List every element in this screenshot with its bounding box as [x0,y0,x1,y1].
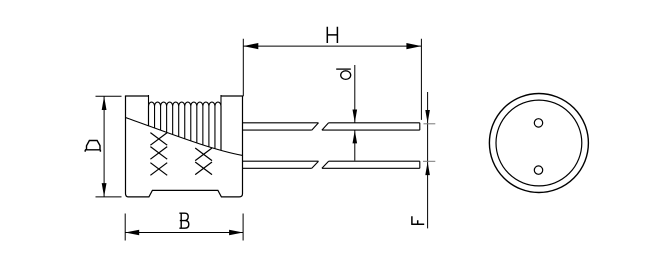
label F [411,216,424,224]
dimension D witness ticks [96,96,122,197]
label B [179,213,188,228]
lower lead wire with break symbol [243,161,420,168]
dimension B line [125,232,243,234]
dimension d line lower part [354,130,356,160]
dimension F tick lower [423,160,435,162]
dimension F arrow down [425,110,430,123]
dimension d line upper part [354,65,356,123]
left flange top edge [125,95,149,97]
wire cross-section X marks, left column [150,133,167,176]
dimension H line [243,45,421,47]
dimension B extension lines [125,214,243,241]
dimension H arrow right [406,43,421,49]
dimension d arrow down [353,110,358,123]
upper lead hole [534,119,542,127]
dimension B arrow left [125,230,139,235]
inductor body outline (side view) [125,96,243,197]
dimension D arrow up [102,96,107,110]
dimension D line [103,96,105,197]
dimension H arrow left [243,43,258,49]
dimension D arrow down [102,183,107,197]
right flange top edge [221,95,243,97]
label H [327,27,337,43]
dimension F tick upper [424,123,436,125]
label D [85,141,101,152]
dimension B arrow right [229,230,243,235]
dimension F arrow up [425,162,430,175]
left flange inner edge [148,95,150,160]
lower lead hole [534,166,542,174]
upper lead wire with break symbol [243,123,420,130]
inner circle (top view) [496,100,582,186]
dimension F line [427,92,429,228]
dimension H extension lines [243,39,421,120]
coil winding (scallops, legs, flange inner edges; clipped at winding boundary curve) [149,95,222,160]
dimension d arrow up [353,130,358,143]
right flange inner edge [220,95,222,160]
label d [336,69,351,79]
winding cross-section boundary curve [126,118,243,156]
wire cross-section X marks, right column [195,148,212,175]
outer circle (top view) [489,94,588,193]
